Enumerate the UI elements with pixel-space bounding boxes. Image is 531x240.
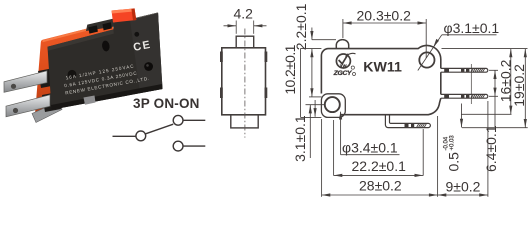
terminal boss 2 — [42, 92, 61, 112]
svg-text:2.2±0.1: 2.2±0.1 — [293, 3, 309, 50]
node common terminal — [136, 131, 146, 141]
terminal pin 1 (top right) — [441, 68, 488, 72]
svg-text:+0.03: +0.03 — [450, 135, 456, 151]
base foot (side) — [231, 115, 258, 128]
vent slot 1 — [88, 25, 98, 33]
svg-text:6.4±0.1: 6.4±0.1 — [483, 125, 499, 172]
wire switch lever — [146, 124, 174, 134]
svg-text:28±0.2: 28±0.2 — [359, 177, 402, 193]
side hole left — [68, 70, 77, 79]
mounting tab bottom-left — [321, 94, 345, 118]
photo: micro switch product photo — [4, 8, 163, 122]
terminal 1 (spade lug) — [4, 71, 47, 93]
metal crimp at bottom edge — [84, 96, 96, 105]
mounting hole bottom-left — [325, 97, 340, 112]
centerline — [244, 29, 246, 138]
wire throw A lead — [183, 119, 205, 121]
extension line body bottom right — [461, 113, 512, 115]
svg-text:4.2: 4.2 — [234, 6, 254, 22]
DIMENSIONS — [282, 3, 528, 196]
wire common lead — [113, 135, 136, 137]
switch body (black) — [48, 13, 163, 110]
side hole right — [144, 62, 153, 71]
svg-text:φ3.4±0.1: φ3.4±0.1 — [342, 139, 398, 155]
vent slot 2 — [103, 22, 112, 30]
dimension line 4.2 right — [254, 25, 267, 27]
svg-text:ZGCY: ZGCY — [333, 70, 353, 77]
mounting lug bottom-right — [264, 88, 267, 99]
svg-text:3P ON-ON: 3P ON-ON — [133, 96, 200, 111]
svg-text:KW11: KW11 — [363, 59, 402, 75]
svg-text:φ3.1±0.1: φ3.1±0.1 — [444, 20, 500, 36]
mounting lug top-left — [220, 52, 223, 63]
svg-text:9±0.2: 9±0.2 — [446, 178, 481, 194]
side view of switch — [221, 6, 266, 138]
plunger dome (front) — [336, 40, 348, 49]
extension line pin3 bottom right — [462, 127, 528, 129]
section line through pins — [470, 64, 472, 104]
mounting lug bottom-left — [220, 88, 223, 99]
extension line body top right — [442, 48, 528, 50]
mounting hole top-right — [419, 52, 434, 67]
terminal pin 2 (middle right) — [441, 94, 488, 98]
node throw terminal B — [173, 141, 183, 151]
plunger (side) — [236, 36, 254, 48]
small hole near CE — [134, 32, 139, 37]
3P ON-ON label and SPDT switch symbol — [113, 96, 206, 151]
terminal 3 (bottom) — [32, 101, 62, 123]
svg-text:22.2±0.1: 22.2±0.1 — [352, 158, 407, 174]
node throw terminal A — [173, 115, 183, 125]
svg-text:-0.04: -0.04 — [444, 136, 450, 150]
terminal pin 3 (bottom bent) — [385, 115, 430, 128]
hole under plunger — [101, 40, 110, 52]
svg-text:10.2±0.1: 10.2±0.1 — [282, 44, 298, 94]
svg-text:3.1±0.1: 3.1±0.1 — [292, 115, 308, 162]
svg-text:XW: XW — [340, 63, 347, 68]
extension lines 4.2 — [235, 21, 237, 34]
dimension line 4.2 left — [224, 25, 237, 27]
plunger button (red) — [112, 8, 137, 22]
terminal 2 (spade lug) — [6, 95, 50, 117]
terminal boss 1 — [38, 68, 57, 88]
logo emblem — [333, 53, 356, 77]
front view of switch — [282, 3, 528, 196]
switch body outline (front) — [321, 45, 440, 114]
svg-text:19±0.2: 19±0.2 — [511, 64, 527, 107]
orange switch base — [35, 22, 114, 117]
switch body (side) — [222, 48, 266, 115]
extension connector left — [300, 49, 302, 118]
mounting lug top-right — [264, 52, 267, 63]
svg-text:20.3±0.2: 20.3±0.2 — [357, 8, 412, 24]
body lever tab with slots — [86, 19, 114, 31]
svg-text:0.5: 0.5 — [446, 152, 462, 172]
wire throw B lead — [183, 145, 205, 147]
body bottom edge shade — [51, 84, 163, 110]
